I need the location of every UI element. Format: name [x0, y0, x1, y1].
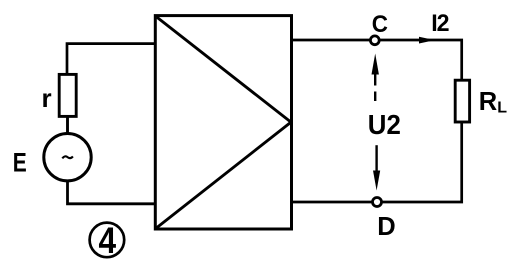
- load resistor RL: [455, 80, 469, 122]
- svg-text:R: R: [479, 88, 497, 116]
- wire top-right from box through node C to load corner: [293, 40, 462, 81]
- AC source E circle: [44, 134, 91, 181]
- resistor r: [59, 74, 76, 116]
- U2 down arrow shaft: [375, 145, 377, 172]
- node C terminal circle: [370, 36, 379, 45]
- svg-text:I2: I2: [431, 10, 449, 37]
- svg-text:r: r: [42, 83, 52, 113]
- figure number circle: [90, 223, 125, 258]
- svg-text:L: L: [497, 99, 507, 116]
- U2 down arrow (head): [373, 171, 380, 191]
- svg-text:C: C: [372, 11, 388, 38]
- converter block U (rectifier box): [155, 16, 291, 229]
- U2 up arrow (head): [372, 54, 379, 75]
- svg-text:U2: U2: [368, 109, 401, 140]
- svg-text:E: E: [13, 147, 27, 177]
- wire RL bottom through node D back to box: [293, 122, 462, 202]
- box diagonal bottom-left to right-middle: [157, 122, 291, 227]
- wire source E to bottom-left horizontal into box: [68, 181, 155, 204]
- wire resistor r to source E: [66, 116, 69, 134]
- svg-text:4: 4: [99, 219, 117, 261]
- wire top-left horizontal from source branch to converter box: [67, 44, 155, 76]
- box diagonal top-left to right-middle: [157, 17, 291, 122]
- current I2 arrowhead: [419, 37, 435, 44]
- U2 up arrow shaft (dashed): [374, 74, 376, 102]
- node D terminal circle: [373, 198, 382, 207]
- svg-text:D: D: [377, 213, 395, 241]
- AC source tilde symbol: [62, 156, 73, 158]
